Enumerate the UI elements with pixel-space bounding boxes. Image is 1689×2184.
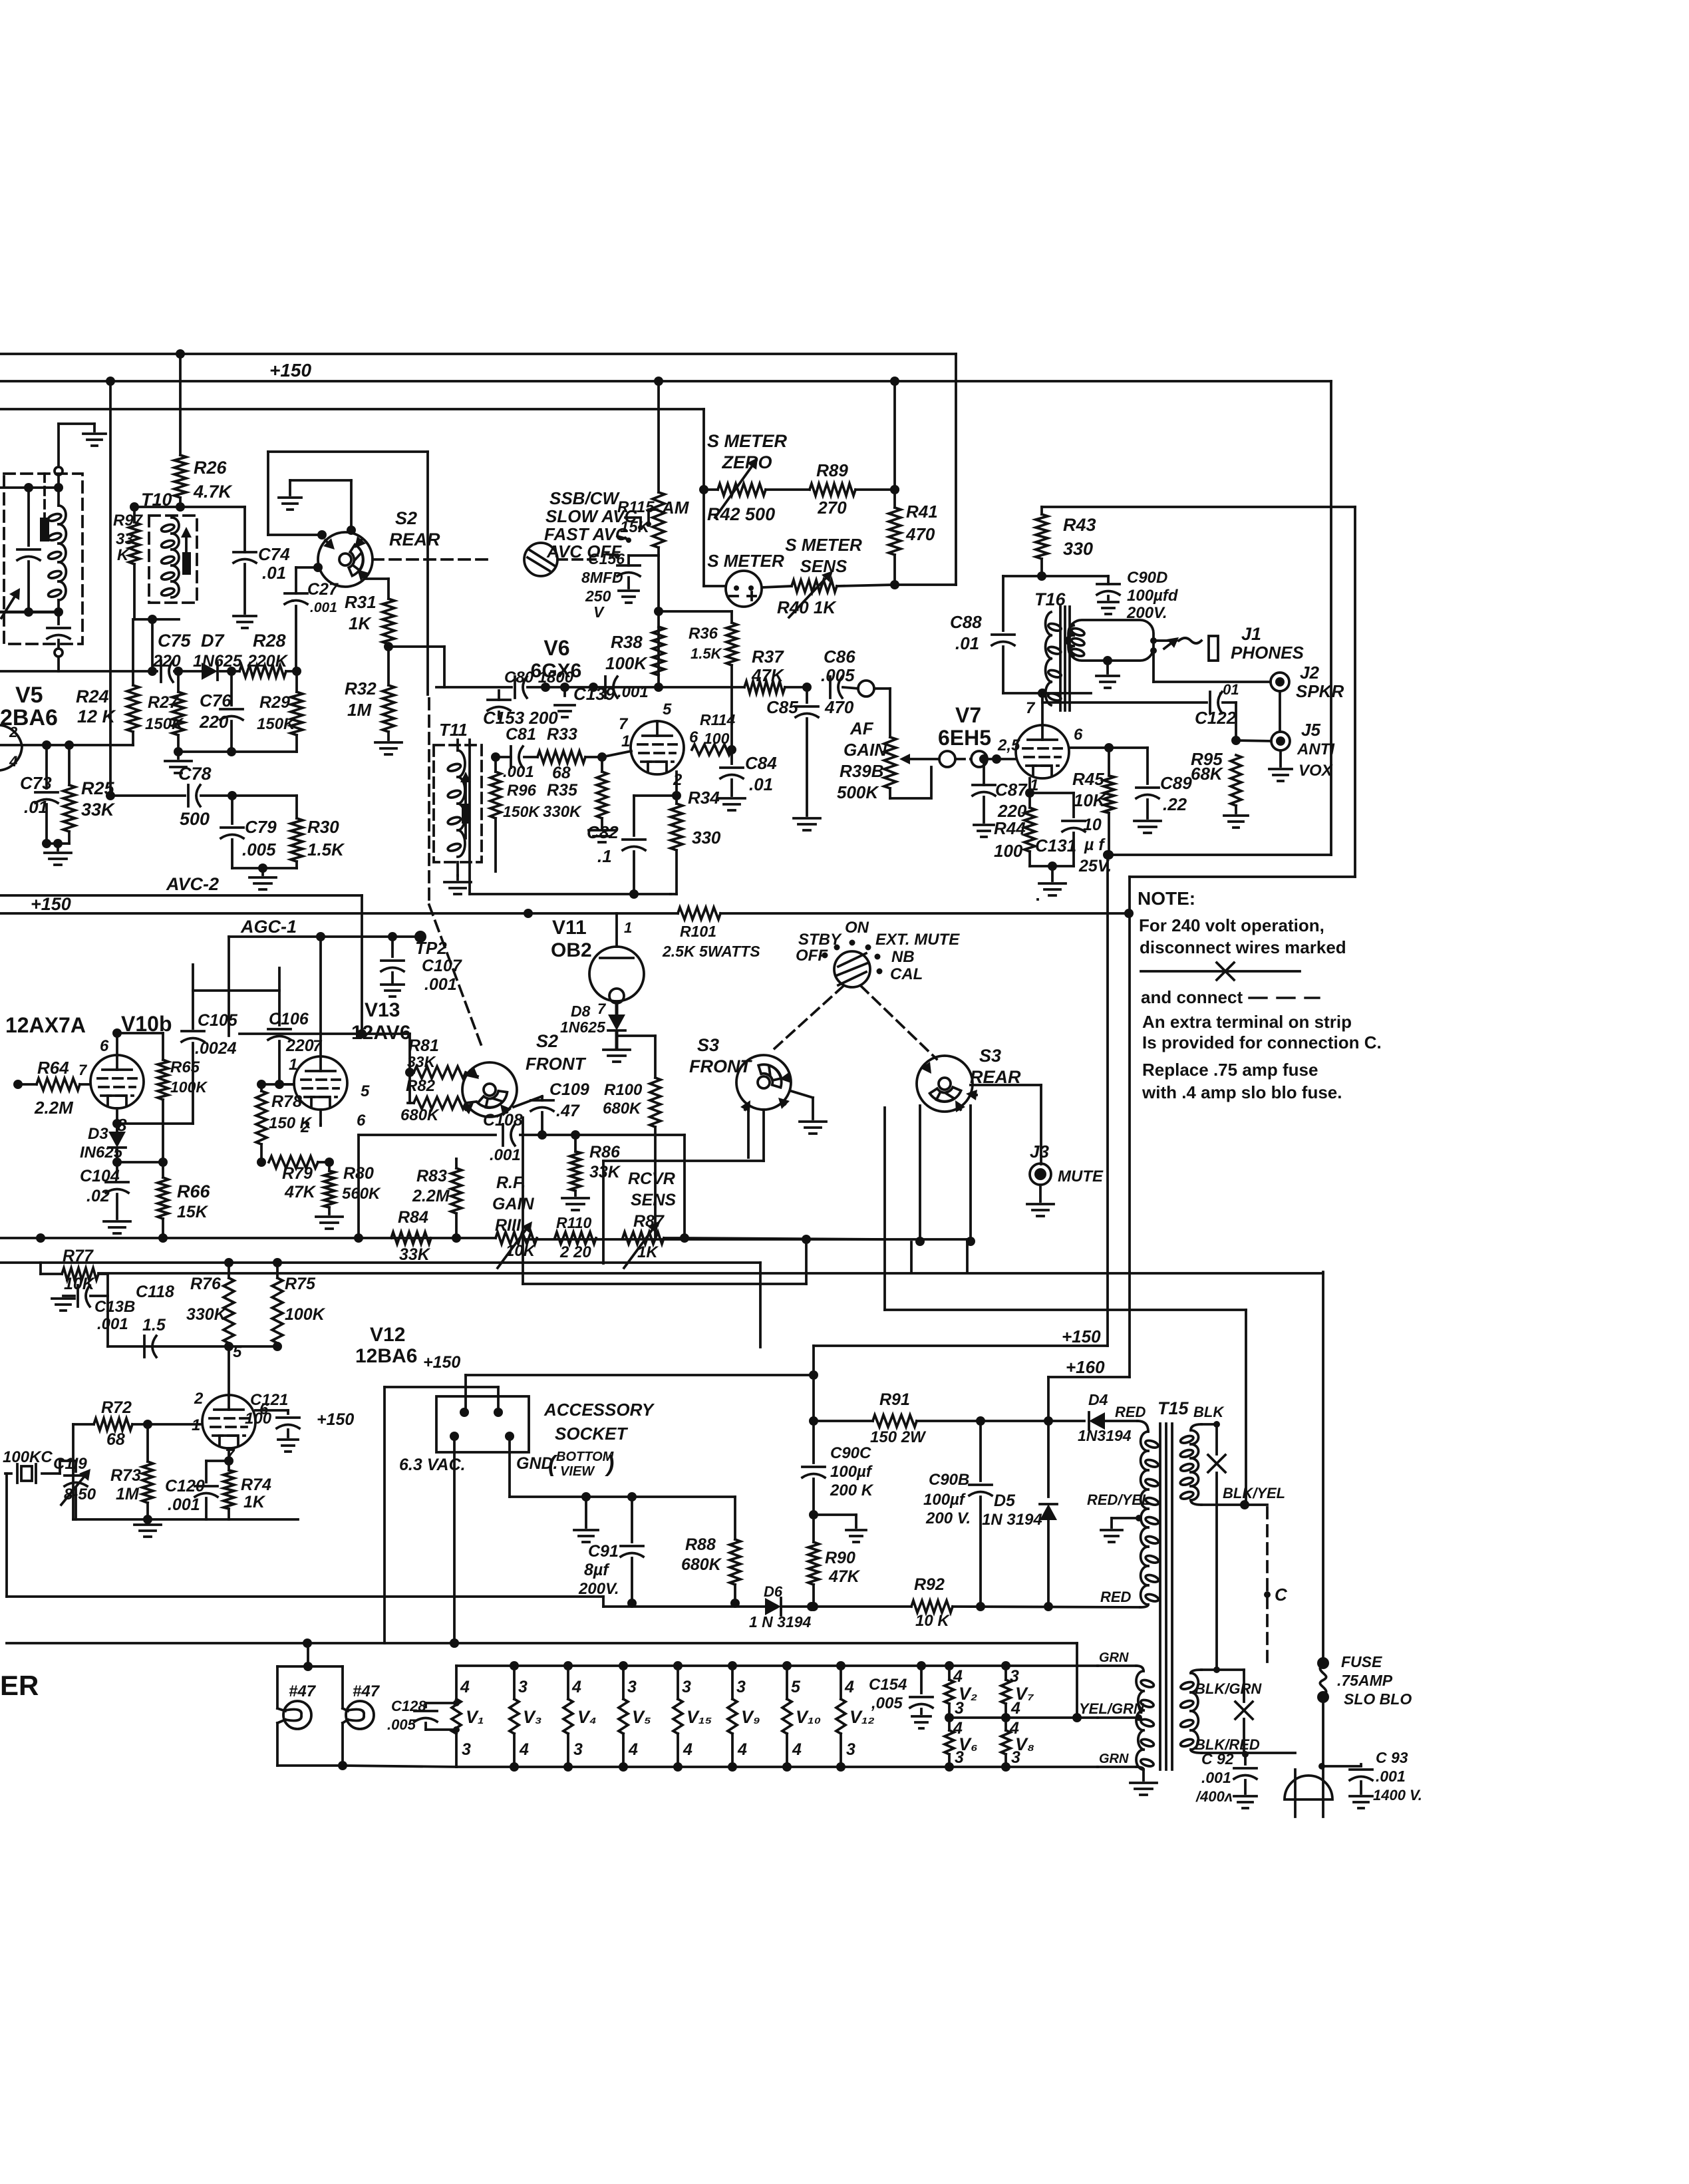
svg-text:100: 100	[245, 1410, 272, 1428]
label C156 8MFD 250V	[581, 550, 625, 621]
svg-text:T11: T11	[439, 720, 468, 740]
svg-text:R31: R31	[345, 592, 377, 612]
ground acc	[574, 1497, 598, 1542]
label R64 2.2M	[34, 1058, 74, 1118]
svg-text:.001: .001	[97, 1315, 128, 1333]
svg-text:330K: 330K	[543, 803, 582, 821]
svg-text:6EH5: 6EH5	[938, 726, 991, 750]
transformer T10 slug arrow	[181, 527, 192, 575]
svg-text:R114: R114	[700, 711, 735, 728]
label R86 33K	[589, 1143, 621, 1181]
wire y1898 long	[0, 1258, 760, 1267]
jack J5	[1271, 732, 1290, 750]
svg-text:1N 3194: 1N 3194	[982, 1511, 1042, 1529]
wire S2F leg	[522, 1118, 524, 1284]
wire x1873 drop	[1245, 1310, 1247, 1505]
label D3 1N625	[80, 1125, 123, 1162]
ground C79/R30	[249, 868, 276, 889]
capacitor C93	[1350, 1764, 1372, 1794]
V12 pins	[192, 1343, 269, 1465]
svg-text:REAR: REAR	[389, 530, 440, 549]
tube heater V10h	[782, 1666, 821, 1767]
svg-text:V: V	[593, 603, 605, 621]
capacitor C90D	[1097, 576, 1120, 599]
svg-text:100µf: 100µf	[830, 1463, 873, 1481]
wire lamp box mid	[341, 1666, 344, 1766]
label R83 2.2M	[412, 1167, 450, 1205]
wire bus C drop	[702, 409, 705, 586]
label S METER SENS	[785, 535, 862, 576]
trimmer C119	[61, 1461, 90, 1519]
capacitor left IF	[17, 488, 40, 612]
label 6.3VAC	[399, 1456, 466, 1474]
resistor R77	[41, 1268, 108, 1280]
svg-text:C154: C154	[869, 1676, 907, 1694]
svg-text:C86: C86	[824, 647, 855, 667]
J1 ground	[1096, 656, 1119, 688]
wire R42-R89 line	[699, 485, 899, 494]
svg-text:330: 330	[1063, 539, 1093, 559]
resistor R30	[291, 796, 303, 868]
label +160	[1066, 1357, 1105, 1377]
svg-text:R65: R65	[170, 1058, 200, 1076]
feedthrough pair	[939, 751, 955, 767]
wire T10 bottom rail	[134, 615, 179, 624]
svg-text:R89: R89	[816, 460, 848, 480]
wire x110 drop	[72, 1424, 75, 1519]
label S3 REAR	[970, 1046, 1021, 1087]
wire 6.3vac line	[7, 1638, 1077, 1718]
ground J5	[1269, 750, 1292, 781]
label T10	[141, 490, 172, 510]
wire S3R top wire	[0, 0, 1, 1]
wire J2 to J5	[1279, 691, 1281, 732]
svg-text:12BA6: 12BA6	[355, 1345, 417, 1367]
resistor R83	[451, 1159, 462, 1238]
transformer T15 heater secondary	[1136, 1671, 1155, 1770]
wire grid left drop	[0, 0, 1, 1]
label R80 560K	[342, 1164, 381, 1203]
svg-text:R36: R36	[689, 625, 718, 643]
svg-text:C76: C76	[200, 691, 231, 710]
wire GRN bottom2	[0, 0, 1, 1]
svg-text:7: 7	[78, 1062, 88, 1078]
svg-text:S METER: S METER	[707, 431, 788, 451]
ground C104	[104, 1221, 130, 1233]
jack J1 frame	[0, 0, 1, 1]
wire S2 to C27	[0, 0, 1, 1]
wire af gain link	[955, 758, 971, 760]
svg-text:.001: .001	[310, 600, 337, 615]
ground R95	[1224, 816, 1248, 828]
svg-text:220: 220	[199, 712, 229, 732]
label D4	[1088, 1391, 1108, 1408]
svg-text:J2: J2	[1300, 663, 1319, 683]
leader am	[646, 510, 657, 527]
label AF GAIN R39B 500K	[837, 718, 887, 802]
diode D6	[765, 1598, 781, 1615]
svg-text:2: 2	[194, 1390, 204, 1408]
wire y1930 line	[523, 1283, 806, 1285]
label C121 100	[245, 1391, 288, 1428]
wire V13 pin1	[279, 1083, 294, 1086]
svg-text:.005: .005	[242, 840, 276, 859]
resistor R37	[744, 681, 812, 693]
label 220 C75	[0, 0, 1, 1]
svg-text:6: 6	[1074, 726, 1083, 744]
resistor R38 body	[653, 627, 665, 675]
svg-text:R32: R32	[345, 679, 377, 699]
svg-text:AF: AF	[849, 718, 874, 738]
capacitor C106 body	[0, 0, 1, 1]
svg-text:#47: #47	[353, 1682, 381, 1700]
wire J1 sleeve to J2	[1153, 651, 1271, 682]
diode D3	[108, 1124, 126, 1162]
svg-text:C105: C105	[198, 1011, 238, 1030]
wire x539 drop	[354, 1135, 363, 1243]
label C108 .001	[483, 1111, 523, 1164]
dashed avc link	[557, 558, 595, 561]
capacitor C154	[910, 1666, 933, 1728]
label R40 1K	[777, 597, 837, 617]
wire pin2 to R34	[0, 0, 1, 1]
svg-text:NOTE:: NOTE:	[1138, 888, 1195, 909]
label R28 220K	[247, 631, 289, 671]
wire V6 block bottom	[470, 889, 671, 899]
svg-text:4: 4	[683, 1740, 692, 1759]
label C105 .0024	[195, 1011, 238, 1058]
capacitor C81	[491, 746, 537, 768]
wire C122 line	[1042, 693, 1207, 702]
svg-text:V₉: V₉	[741, 1707, 760, 1727]
wire heater mid bus	[945, 1713, 1098, 1722]
svg-text:R.F.: R.F.	[496, 1173, 526, 1192]
resistor R91	[873, 1415, 917, 1427]
capacitor C90B	[969, 1421, 992, 1603]
label R24 12K	[76, 687, 117, 726]
svg-text:S METER: S METER	[707, 551, 784, 571]
svg-text:SENS: SENS	[800, 556, 847, 576]
capacitor C128 body	[0, 0, 1, 1]
label R89	[816, 460, 848, 518]
label T16	[1034, 589, 1066, 609]
resistor R90	[808, 1515, 819, 1611]
tube heater V6h	[945, 1718, 978, 1767]
svg-text:R66: R66	[177, 1181, 211, 1201]
label +150 v12	[317, 1410, 354, 1429]
svg-text:500: 500	[180, 809, 210, 829]
label C78 500	[178, 764, 212, 829]
diode D7	[202, 663, 218, 680]
capacitor C104	[106, 1162, 128, 1219]
label AVC OFF	[546, 542, 622, 561]
label C84 .01	[745, 753, 777, 794]
svg-text:FUSE: FUSE	[1341, 1653, 1382, 1670]
svg-text:V₂: V₂	[959, 1684, 977, 1704]
svg-text:250: 250	[585, 587, 611, 605]
diode D4	[1089, 1412, 1105, 1430]
wire S2 bottom drop	[0, 0, 1, 1]
wire +150 top bus A	[0, 349, 956, 359]
wire T11 leads	[456, 862, 459, 875]
wire y1865 ext	[685, 1238, 885, 1239]
svg-text:VIEW: VIEW	[560, 1464, 595, 1479]
label V12 12BA6	[355, 1324, 417, 1367]
svg-text:200 K: 200 K	[830, 1482, 874, 1499]
label R44 100	[994, 818, 1026, 861]
svg-text:1M: 1M	[347, 700, 372, 720]
wire x1665 drop	[1106, 855, 1109, 1346]
wire V7 plate	[1038, 689, 1047, 725]
svg-text:10K: 10K	[1074, 790, 1107, 810]
wire AVC row	[0, 667, 301, 676]
label R91 150 2W	[870, 1390, 927, 1446]
svg-text:R74: R74	[241, 1476, 271, 1494]
wire C108 line	[359, 1134, 685, 1136]
label R65 100K	[170, 1058, 208, 1096]
wire C27 top	[291, 599, 294, 602]
svg-text:R40 1K: R40 1K	[777, 597, 837, 617]
wire R92 line	[812, 1607, 1140, 1607]
wire V7 cathode	[0, 0, 1, 1]
wire AGC-1 line	[229, 931, 426, 943]
AC prong2	[0, 0, 1, 1]
resistor R97	[129, 507, 140, 619]
svg-text:µ f: µ f	[1084, 836, 1106, 854]
label C92 .001 1400V	[1195, 1750, 1234, 1805]
resistor R72	[94, 1418, 132, 1430]
wire R77 stub	[0, 0, 1, 1]
wire T16 secondary out	[0, 0, 1, 1]
svg-text:V₁: V₁	[466, 1707, 484, 1727]
wire R91 line	[814, 1416, 1084, 1426]
label V5	[15, 683, 43, 708]
potentiometer R39B AF GAIN	[884, 737, 931, 798]
svg-text:+150: +150	[31, 894, 71, 914]
label R33 68	[547, 725, 577, 782]
wire heater top bus	[456, 1661, 1098, 1670]
wire V12 pin5	[228, 1346, 230, 1395]
terminal T slug top	[55, 467, 63, 475]
svg-text:1M: 1M	[116, 1485, 140, 1503]
label R37 47K	[751, 647, 785, 685]
svg-text:C156: C156	[588, 550, 625, 567]
svg-text:TP2: TP2	[415, 938, 447, 958]
svg-text:C91: C91	[588, 1542, 619, 1561]
svg-text:D8: D8	[571, 1003, 591, 1020]
capacitor C75	[161, 661, 173, 682]
crystal Y1	[5, 1461, 76, 1483]
svg-text:C: C	[1275, 1585, 1288, 1605]
wire C90C drop	[809, 1375, 818, 1426]
label S METER	[707, 551, 784, 571]
svg-text:R33: R33	[547, 725, 577, 744]
label BOTTOM VIEW	[548, 1450, 615, 1479]
wire R77 right jog	[106, 1274, 109, 1346]
tube heater V9	[728, 1666, 760, 1767]
rotary switch S1 STBY	[834, 951, 870, 987]
svg-text:4: 4	[792, 1740, 802, 1759]
wire left coil lead	[57, 475, 60, 506]
ground C92	[1234, 1796, 1257, 1808]
wire V10b pin8	[116, 1108, 118, 1124]
svg-text:SLO BLO: SLO BLO	[1344, 1690, 1412, 1708]
tube heater V3	[510, 1666, 542, 1767]
label R73 1M	[110, 1466, 141, 1503]
tube V6 cathode pin2	[675, 772, 678, 796]
label C75/D7 values	[152, 652, 243, 671]
label R29 150K	[257, 693, 296, 733]
svg-text:4: 4	[571, 1678, 581, 1696]
svg-text:BLK/GRN: BLK/GRN	[1195, 1680, 1262, 1697]
diode D8	[608, 1014, 625, 1030]
svg-text:R97: R97	[113, 512, 144, 530]
wire +150 bus B	[0, 377, 1331, 386]
svg-text:,005: ,005	[871, 1694, 903, 1712]
capacitor C131 body	[1030, 793, 1085, 866]
ground R35	[589, 830, 615, 842]
label NB	[891, 948, 915, 966]
capacitor C128	[0, 0, 1, 1]
label 10uf 25V	[1078, 816, 1112, 875]
resistor R75	[272, 1263, 283, 1351]
svg-text:10K: 10K	[506, 1242, 536, 1260]
resistor R89	[810, 484, 855, 496]
IF can dashed box	[4, 474, 82, 644]
wire x1870 drop	[1243, 1670, 1245, 1753]
svg-text:100: 100	[704, 730, 730, 747]
svg-text:150 K: 150 K	[269, 1114, 313, 1132]
resistor R86	[570, 1130, 581, 1195]
svg-text:BLK: BLK	[1193, 1404, 1225, 1420]
svg-text:10: 10	[1083, 816, 1102, 834]
label BLK	[1193, 1404, 1225, 1420]
svg-text:FRONT: FRONT	[526, 1054, 587, 1074]
ground R32	[375, 742, 402, 754]
label R42 500	[707, 504, 775, 524]
transformer T15 upper secondary	[1179, 1430, 1199, 1500]
wire BLK/YEL lead	[1191, 1500, 1267, 1509]
svg-text:500K: 500K	[837, 782, 879, 802]
wire C105 C106 link	[193, 989, 279, 992]
wire x907 drop	[602, 1161, 605, 1263]
svg-text:+150: +150	[269, 360, 311, 381]
wire S2 left frame	[268, 452, 428, 540]
svg-text:1.5: 1.5	[142, 1316, 166, 1334]
capacitor C88	[0, 0, 1, 1]
svg-text:R28: R28	[253, 631, 286, 651]
resistor R84	[0, 0, 1, 1]
svg-text:.001: .001	[503, 763, 534, 781]
svg-text:PHONES: PHONES	[1231, 643, 1304, 663]
label R41 470	[905, 502, 938, 544]
accessory socket box	[436, 1396, 529, 1452]
ground R80	[316, 1217, 343, 1229]
V6 pin labels	[619, 701, 698, 789]
capacitor C108	[503, 1124, 515, 1146]
capacitor C73	[35, 745, 58, 844]
svg-text:C104: C104	[80, 1167, 120, 1185]
capacitor C105	[182, 965, 204, 1124]
label R34 330	[688, 788, 721, 848]
wire +150 ps line	[814, 1346, 1108, 1375]
svg-text:4: 4	[737, 1740, 747, 1759]
label D4 RED	[1078, 1404, 1146, 1444]
svg-text:R79: R79	[282, 1164, 313, 1183]
potentiometer R111	[496, 1221, 537, 1268]
svg-text:3: 3	[462, 1740, 471, 1759]
svg-text:5: 5	[663, 701, 672, 718]
svg-text:220: 220	[152, 652, 181, 671]
svg-text:.75AMP: .75AMP	[1337, 1672, 1393, 1689]
label 12AX7A	[5, 1013, 86, 1037]
wire V10b plate	[112, 1028, 163, 1055]
svg-text:470: 470	[905, 524, 935, 544]
diode D5	[1040, 1421, 1057, 1611]
svg-text:C13B: C13B	[94, 1298, 135, 1316]
label R26 4.7K	[193, 458, 233, 502]
pot R39B wiper	[899, 754, 939, 764]
svg-text:/400ʌ: /400ʌ	[1195, 1788, 1233, 1805]
ground bracket S2 rear	[279, 480, 351, 531]
resistor R27	[172, 671, 184, 756]
resistor R38	[0, 0, 1, 1]
ground R86	[562, 1198, 589, 1210]
resistor R114	[0, 0, 1, 1]
svg-text:AVC-2: AVC-2	[166, 874, 219, 894]
label EXT MUTE	[875, 931, 960, 949]
svg-text:R75: R75	[285, 1275, 316, 1293]
resistor R34	[0, 0, 1, 1]
transformer T16 secondary	[1066, 625, 1085, 657]
capacitor C82 body	[623, 796, 677, 894]
label R110 220	[556, 1214, 591, 1261]
svg-text:4: 4	[628, 1740, 638, 1759]
svg-text:2.2M: 2.2M	[412, 1187, 450, 1205]
svg-text:MUTE: MUTE	[1058, 1168, 1104, 1185]
label C122 .01	[1195, 681, 1239, 728]
svg-text:4: 4	[9, 753, 17, 770]
ground C84	[718, 798, 745, 810]
wire T10 coil leads	[0, 0, 1, 1]
svg-text:K: K	[117, 546, 130, 564]
wire V11 to D8	[615, 1003, 619, 1014]
wire y733 left	[0, 483, 63, 492]
wire bus A right drop	[955, 354, 957, 585]
V7 pin labels	[1026, 699, 1083, 794]
label R66 15K	[177, 1181, 211, 1221]
resistor R81	[414, 1066, 466, 1078]
wire left top entry	[59, 424, 94, 467]
label R88 680K	[681, 1535, 722, 1574]
transformer T16 primary	[1046, 612, 1062, 705]
svg-text:V13: V13	[365, 999, 400, 1021]
wire y920 left heavy	[0, 607, 59, 617]
wire blk/grn row	[1191, 1666, 1244, 1673]
svg-text:R64: R64	[37, 1058, 69, 1078]
label R30 1.5K	[307, 817, 345, 859]
resistor R96	[490, 757, 501, 871]
C128 draw	[414, 1700, 460, 1733]
label 1N3194 D6	[749, 1613, 812, 1631]
label C138 .001	[94, 1298, 135, 1333]
wire S3R left leg	[915, 1106, 925, 1246]
rotary switch S3 FRONT	[736, 1055, 791, 1112]
wire x1212 drop	[805, 1239, 808, 1284]
label J3 MUTE	[1030, 1142, 1104, 1185]
svg-text:.0024: .0024	[195, 1039, 237, 1058]
wire lamp box left	[276, 1666, 279, 1766]
